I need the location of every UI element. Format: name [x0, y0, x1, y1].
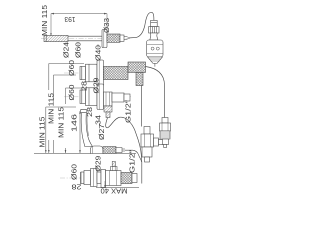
deck bottom line: [96, 187, 139, 189]
svg-text:MIN 115: MIN 115: [56, 107, 65, 138]
handshower body: [147, 40, 163, 57]
valve1 elbow horizontal: [128, 62, 146, 72]
valve1 threaded tube: [104, 67, 129, 80]
spout tube: [68, 36, 102, 41]
tee side outlet: [154, 138, 163, 146]
svg-text:193: 193: [65, 15, 76, 24]
svg-text:Ø40: Ø40: [93, 45, 102, 61]
svg-text:Ø33: Ø33: [102, 18, 111, 33]
spout centerline: [41, 38, 130, 40]
MAX40 arrow: [104, 181, 106, 188]
min115 dim line B lower: [48, 140, 50, 153]
below-deck flange: [101, 170, 106, 188]
valve1 centerline: [64, 72, 127, 74]
below-deck hex body: [106, 171, 122, 186]
tee lower body: [142, 147, 152, 162]
handshower ribbed ring: [149, 27, 159, 33]
mixer lever cap: [80, 109, 87, 112]
min115 dim line D: [66, 88, 85, 104]
valve2 tee body: [104, 92, 113, 106]
svg-text:28: 28: [80, 81, 89, 91]
svg-text:MAX 40: MAX 40: [101, 187, 128, 196]
shank centerline: [60, 177, 81, 179]
min115 dim line C lower: [53, 140, 55, 153]
hose below tee: [141, 162, 143, 184]
svg-text:Ø29: Ø29: [93, 156, 102, 172]
below-deck shank washer: [81, 171, 91, 185]
svg-text:Ø60: Ø60: [67, 60, 76, 76]
mixer lever: [81, 113, 92, 147]
svg-text:Ø60: Ø60: [74, 42, 83, 58]
valve2 flange: [97, 84, 104, 110]
min115 dim line A: [46, 107, 76, 153]
check valve fitting: [160, 118, 171, 148]
handshower connector nut: [151, 20, 158, 26]
valve2 cap: [80, 90, 86, 104]
deck top line right: [116, 153, 136, 155]
valve1 cap: [80, 66, 86, 79]
svg-text:34: 34: [93, 115, 102, 125]
deck top line: [34, 153, 91, 155]
valve1 elbow vertical: [136, 72, 143, 85]
mixer cartridge: [103, 147, 116, 154]
valve2 outlet pipe: [112, 93, 130, 102]
hose from valve2 to tee: [106, 117, 142, 161]
dim 193 line: [51, 14, 107, 36]
valve2 centerline: [64, 96, 131, 98]
below-deck mounting nut: [91, 169, 102, 187]
svg-text:Ø60: Ø60: [67, 85, 76, 101]
mixer base dome: [91, 146, 104, 154]
valve1 body: [86, 64, 98, 82]
valve1 flange: [97, 60, 104, 86]
svg-text:MIN 115: MIN 115: [37, 117, 46, 148]
dim ext ticks spout: [66, 42, 98, 48]
lever inner line: [87, 113, 89, 136]
spout flange: [102, 30, 107, 48]
spout knurled cylinder: [44, 35, 68, 41]
below-deck pipe right: [121, 173, 132, 184]
valve2 stem bolt: [104, 106, 112, 118]
hose down from elbow: [141, 86, 143, 127]
handshower neck: [150, 33, 158, 40]
cartridge bolt: [116, 148, 125, 153]
min115 dim line C: [54, 75, 77, 100]
svg-text:Ø29: Ø29: [91, 78, 100, 94]
svg-text:MIN 115: MIN 115: [47, 93, 56, 124]
min115 dim line B: [49, 64, 84, 91]
dim line 146: [79, 111, 81, 153]
svg-text:G1/2″: G1/2″: [128, 150, 137, 173]
below-deck stem bolt up: [111, 162, 118, 171]
min115 dim line D lower: [65, 148, 67, 153]
tee top bolt: [144, 127, 150, 135]
below-deck pipe cap: [132, 174, 137, 183]
valve2 body: [86, 88, 98, 106]
arrow onto spout cylinder: [50, 33, 52, 35]
hose from spout to handshower: [128, 12, 154, 38]
handshower spray cone: [148, 57, 163, 67]
svg-text:28: 28: [72, 183, 82, 192]
svg-text:Ø60: Ø60: [70, 164, 79, 180]
svg-text:G1/2″: G1/2″: [124, 100, 133, 123]
hose from cartridge bolt to below tee: [125, 150, 142, 162]
spout threaded nipple: [107, 34, 128, 42]
svg-text:Ø27: Ø27: [97, 124, 106, 140]
hose arc from elbow to check valve: [146, 67, 165, 118]
svg-text:146: 146: [70, 114, 79, 132]
svg-text:Ø24: Ø24: [62, 42, 71, 58]
tee hex body: [141, 134, 154, 147]
svg-text:MIN 115: MIN 115: [40, 5, 49, 36]
